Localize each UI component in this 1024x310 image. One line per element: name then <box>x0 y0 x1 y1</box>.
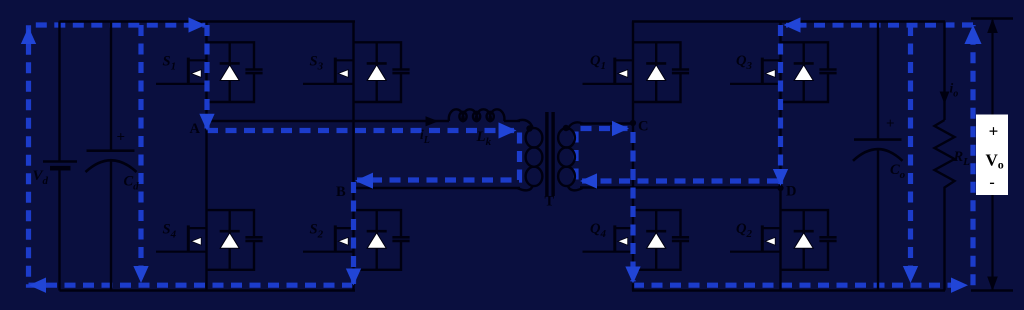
switch cell S2 (MOSFET + antiparallel diode + snubber capacitor) <box>303 210 410 270</box>
current path: S1 leg <box>204 25 209 129</box>
current direction arrow (current path: Q4 leg) <box>625 267 640 284</box>
current direction arrow (current path: secondary winding loop) <box>580 173 597 188</box>
current arrow io <box>940 92 950 105</box>
transformer primary polarity dot <box>526 125 532 131</box>
current path: input source loop <box>29 25 354 285</box>
wire bottom rail left <box>60 289 356 292</box>
wire left bridge leg1 column <box>205 22 207 291</box>
current path: secondary winding loop <box>576 129 778 182</box>
wire inductor to transformer <box>504 120 520 122</box>
current direction arrow (current path: input source loop) <box>189 17 206 32</box>
svg-text:+: + <box>886 116 895 132</box>
resistor RL <box>935 22 955 291</box>
switch cell S4 (MOSFET + antiparallel diode + snubber capacitor) <box>156 210 263 270</box>
current path: S2 leg <box>351 182 356 284</box>
current direction arrow (current path: Q3 leg) <box>773 169 788 186</box>
svg-text:T: T <box>545 194 555 210</box>
switch cell Q3 (MOSFET + antiparallel diode + snubber capacitor) <box>730 42 837 102</box>
svg-text:B: B <box>336 184 346 200</box>
transformer T core <box>545 112 555 196</box>
node C junction dot <box>630 120 636 126</box>
current direction arrow (current path: Cd capacitor ripple leg) <box>133 266 148 283</box>
switch cell S3 (MOSFET + antiparallel diode + snubber capacitor) <box>303 42 410 102</box>
current path: Q4 leg <box>630 132 635 282</box>
switch cell S1 (MOSFET + antiparallel diode + snubber capacitor) <box>156 42 263 102</box>
svg-text:+: + <box>117 130 126 146</box>
transformer T secondary winding <box>558 122 582 190</box>
output top terminal bar <box>971 17 1013 20</box>
current direction arrow (current path: top right return) <box>784 17 801 32</box>
svg-text:+: + <box>989 122 999 141</box>
capacitor Cd <box>86 22 137 291</box>
current path: Co capacitor ripple leg <box>908 25 913 281</box>
switch cell Q2 (MOSFET + antiparallel diode + snubber capacitor) <box>730 210 837 270</box>
current path: Q3 leg <box>778 25 783 184</box>
battery Vd <box>43 22 77 291</box>
output port line with voltage arrows <box>987 19 998 292</box>
current direction arrow (current path: primary winding loop) <box>355 173 373 189</box>
current path: Cd capacitor ripple leg <box>138 25 143 281</box>
current direction arrow (current path: input source loop) <box>29 278 46 293</box>
current direction arrow (current path: input source loop) <box>21 27 36 44</box>
svg-text:C: C <box>638 119 648 135</box>
current path: bottom right return <box>633 283 966 288</box>
wire transformer to node C <box>580 122 633 124</box>
wire left bridge leg2 column <box>352 22 354 291</box>
current direction arrow (current path: output right leg) <box>964 25 981 44</box>
current arrow iL <box>426 116 439 126</box>
wire right bridge leg2 column <box>779 22 781 291</box>
svg-text:D: D <box>786 184 796 200</box>
capacitor Co <box>853 22 903 291</box>
current path: output right leg <box>970 25 975 285</box>
current path: primary winding loop <box>207 131 520 181</box>
current direction arrow (current path: secondary winding loop) <box>612 121 629 136</box>
wire top rail right <box>632 20 945 23</box>
output bottom terminal bar <box>971 289 1013 292</box>
switch cell Q4 (MOSFET + antiparallel diode + snubber capacitor) <box>583 210 690 270</box>
current path: top right return <box>786 22 973 27</box>
wire right bridge leg1 column <box>632 22 634 291</box>
current direction arrow (current path: input source loop) <box>199 114 214 131</box>
wire node A to inductor <box>207 120 450 122</box>
transformer secondary polarity dot <box>563 125 569 131</box>
svg-text:A: A <box>190 121 201 137</box>
wire node B to transformer <box>354 187 521 189</box>
wire bottom rail right <box>632 289 945 292</box>
transformer T primary winding <box>518 120 543 190</box>
output voltage box Vo <box>976 115 1008 196</box>
current direction arrow (current path: S2 leg) <box>346 269 361 286</box>
wire top rail left <box>60 20 356 23</box>
current direction arrow (current path: Co capacitor ripple leg) <box>903 266 918 283</box>
current direction arrow (current path: bottom right return) <box>951 278 968 293</box>
switch cell Q1 (MOSFET + antiparallel diode + snubber capacitor) <box>583 42 690 102</box>
wire transformer to node D <box>580 186 781 188</box>
inductor Lk <box>449 109 505 121</box>
current direction arrow (current path: primary winding loop) <box>499 122 517 138</box>
svg-text:-: - <box>989 174 994 191</box>
node D junction dot <box>777 185 783 191</box>
